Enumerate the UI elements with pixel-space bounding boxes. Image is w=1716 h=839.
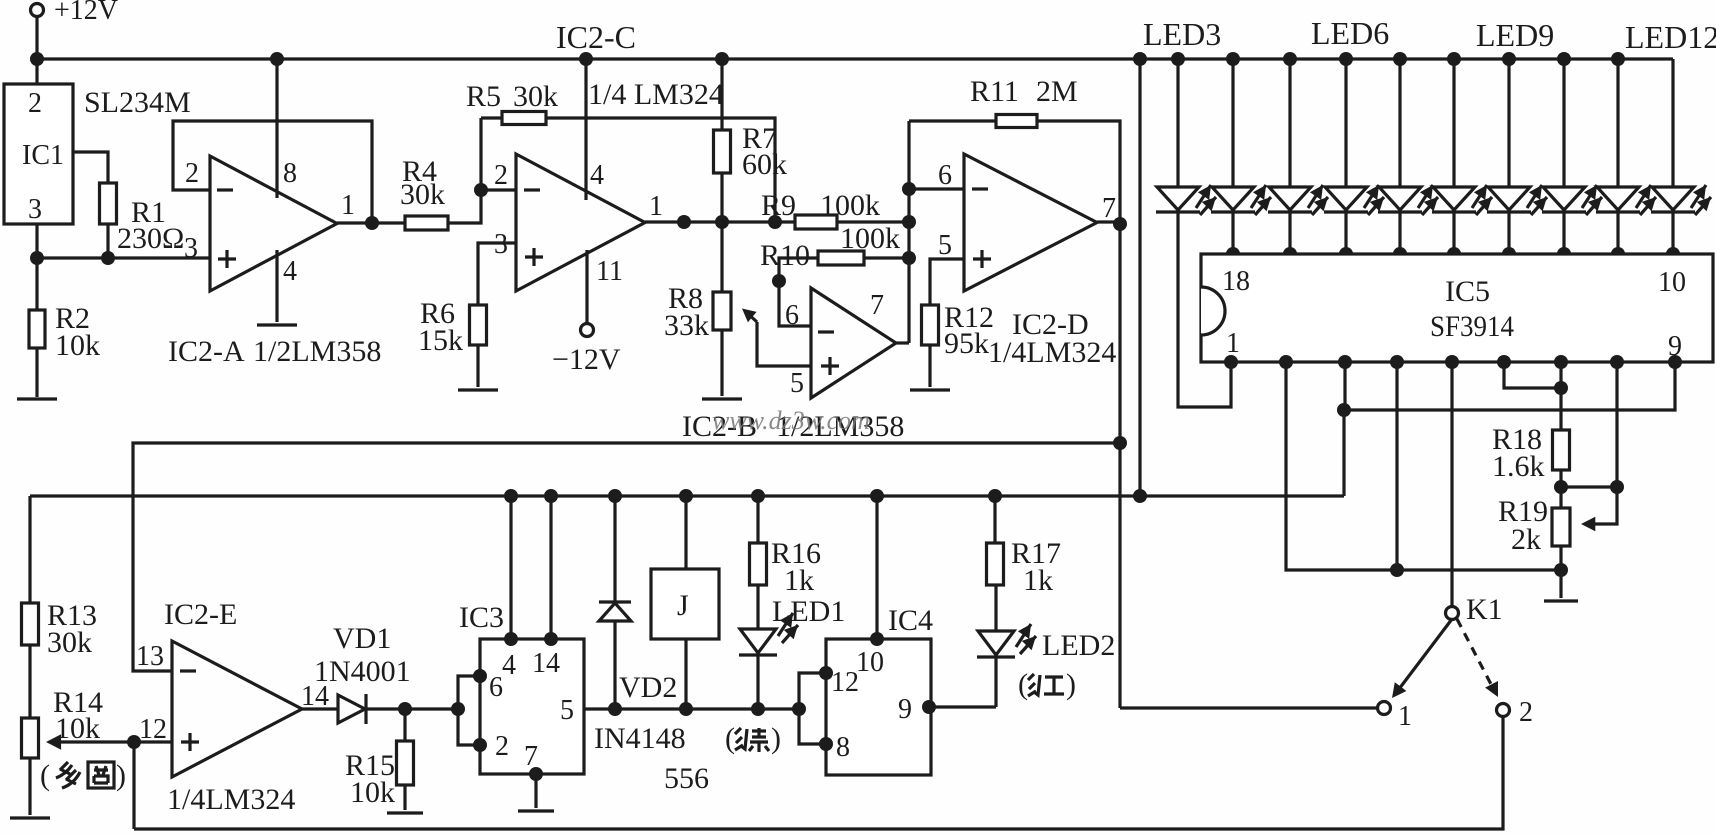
IC IC4 — [826, 604, 933, 775]
svg-text:30k: 30k — [513, 80, 558, 113]
wire R19 wiper arrow — [1581, 487, 1617, 531]
junction IC5 pin 3 — [1338, 355, 1352, 369]
svg-text:−12V: −12V — [552, 343, 621, 376]
label (multi-turn) — [40, 759, 126, 792]
op-amp IC2-A — [185, 156, 355, 291]
wire VD1 to R15 node — [366, 702, 458, 716]
terminal +12V — [31, 0, 119, 59]
junction IC5 pin 2 — [1279, 355, 1293, 369]
label LED3 — [1143, 16, 1221, 52]
resistor R10 — [760, 222, 900, 272]
diode VD1 1N4001 — [314, 622, 411, 724]
switch K1 terminal 2 — [1497, 697, 1534, 728]
resistor R13 — [22, 599, 98, 659]
op-amp IC2-E — [136, 641, 329, 777]
wire IC2-A pin8 from rail — [270, 52, 284, 198]
svg-text:IC2-E: IC2-E — [164, 598, 237, 631]
svg-text:30k: 30k — [47, 626, 92, 659]
watermark — [712, 406, 870, 435]
svg-text:R11: R11 — [970, 75, 1019, 108]
wire IC3 pin7 to ground — [529, 767, 543, 808]
svg-text:(: ( — [725, 722, 735, 755]
resistor R5 — [466, 80, 558, 125]
wire node line down to supply bus — [1342, 410, 1345, 496]
svg-text:556: 556 — [664, 762, 709, 795]
label IC2-C — [556, 19, 636, 55]
LED LED2 (red) — [977, 585, 1115, 662]
svg-text:1/4LM324: 1/4LM324 — [167, 783, 295, 816]
wire IC2-C pin11 — [585, 250, 588, 323]
wire IC5 pin5 down to switch K1 — [1450, 362, 1453, 607]
wire node to IC2-D inverting input — [909, 160, 964, 191]
junction IC5 pin 8 — [1610, 355, 1624, 369]
wire IC2-C pin4 from rail — [579, 52, 593, 200]
svg-text:5: 5 — [560, 695, 574, 726]
label IC2-A 1/2LM358 — [168, 335, 381, 368]
junction IC5 pin 6 — [1497, 355, 1511, 369]
wire IC2-E output to VD1 — [302, 707, 338, 710]
wire IC5 pin8 down to R19 wiper — [1615, 362, 1618, 487]
wire IC4 pin10 to supply bus — [870, 489, 884, 646]
wire R18 bottom node — [1554, 470, 1624, 508]
junction IC5 pin 9 — [1668, 355, 1682, 369]
wire IC2-B inverting input — [772, 258, 818, 326]
svg-text:10k: 10k — [350, 776, 395, 809]
svg-text:5: 5 — [790, 368, 804, 399]
svg-text:1k: 1k — [784, 564, 814, 597]
svg-text:1/2LM358: 1/2LM358 — [253, 335, 381, 368]
wire IC4 pin9 to LED2 — [922, 657, 996, 714]
svg-text:+12V: +12V — [54, 0, 118, 26]
LED bar diode D10 — [1651, 59, 1711, 261]
wire IC5 pin6 hook to R18 top — [1504, 362, 1568, 395]
label IC2-E — [164, 598, 237, 631]
wire IC5 pin3 down to node line — [1337, 362, 1351, 417]
wire IC2-D output down to switch — [1113, 224, 1127, 708]
wire IC2-D output — [1097, 217, 1127, 231]
ground below IC3 pin7 — [518, 809, 554, 812]
svg-text:2: 2 — [185, 158, 199, 189]
op-amp IC2-D — [938, 154, 1116, 291]
svg-text:2: 2 — [1519, 697, 1533, 728]
svg-text:13: 13 — [136, 641, 164, 672]
svg-text:VD1: VD1 — [333, 622, 391, 655]
potentiometer R8 — [664, 282, 731, 342]
relay J — [651, 489, 719, 716]
svg-text:www.dz3w.com: www.dz3w.com — [712, 406, 870, 435]
label (red) — [1018, 668, 1076, 701]
wire top rail down to supply bus — [1133, 52, 1147, 503]
label IC2-B 1/2LM358 — [682, 410, 904, 443]
svg-text:230Ω: 230Ω — [117, 222, 184, 255]
wire R2 to ground — [35, 348, 38, 397]
svg-text:14: 14 — [532, 648, 560, 679]
ground below R14 — [10, 816, 50, 819]
svg-text:LED6: LED6 — [1311, 15, 1389, 51]
wire IC5 pin9 to node line — [1344, 362, 1675, 410]
svg-text:60k: 60k — [742, 148, 787, 181]
wire R19 bottom to ground — [1554, 546, 1568, 598]
wire IC3 pin5 line — [584, 707, 799, 710]
label LED12 — [1625, 19, 1716, 55]
svg-text:IC5: IC5 — [1445, 275, 1490, 308]
wire IC1 pin2 to +12V rail — [35, 59, 38, 84]
svg-text:100k: 100k — [840, 222, 900, 255]
svg-text:IC1: IC1 — [22, 140, 64, 171]
resistor R9 — [761, 189, 880, 229]
wire R4 to IC2-C inverting input — [448, 118, 516, 223]
wire IC2-D noninverting input to R12 — [930, 259, 964, 305]
resistor R1 — [100, 183, 185, 255]
svg-text:SL234M: SL234M — [84, 86, 191, 119]
svg-text:10k: 10k — [55, 329, 100, 362]
svg-text:IC2-A: IC2-A — [168, 335, 245, 368]
wire R8 wiper to IC2-B noninverting input — [742, 309, 811, 367]
svg-text:95k: 95k — [944, 327, 989, 360]
wire pin12 node down to bottom line — [132, 742, 135, 829]
svg-text:2M: 2M — [1036, 75, 1078, 108]
label 1/4LM324 under IC2-E — [167, 783, 295, 816]
junction +12V rail at IC1 — [30, 52, 44, 66]
wire IC1 pin3 down to node — [35, 224, 38, 310]
svg-text:1: 1 — [341, 190, 355, 221]
svg-text:J: J — [677, 589, 689, 622]
wire R7 to R8 — [720, 173, 723, 292]
svg-text:3: 3 — [184, 233, 198, 264]
svg-text:12: 12 — [139, 714, 167, 745]
label (green) — [725, 722, 781, 755]
wire IC3 pin4 to supply bus — [504, 489, 518, 646]
wire R10 to node — [864, 251, 916, 265]
op-amp IC2-C — [494, 154, 663, 291]
svg-text:1N4001: 1N4001 — [314, 655, 411, 688]
svg-text:2: 2 — [28, 88, 42, 119]
svg-text:18: 18 — [1222, 266, 1250, 297]
wire R5 feedback to IC2-C output — [546, 118, 782, 229]
resistor R15 — [345, 709, 414, 809]
svg-text:4: 4 — [283, 256, 297, 287]
wire IC4 pins 12-8 bracket — [792, 666, 833, 751]
svg-text:LED3: LED3 — [1143, 16, 1221, 52]
LED bar diode D6 — [1432, 52, 1492, 261]
ground below R8 — [702, 397, 742, 400]
wire +12V top rail — [37, 57, 1673, 60]
wire R9 to node — [837, 215, 916, 229]
resistor R7 — [714, 122, 788, 181]
svg-text:7: 7 — [1102, 193, 1116, 224]
wire IC5 pin4 down to ground line — [1395, 362, 1398, 570]
wire R11 to IC2-D output — [1037, 121, 1120, 224]
LED bar diode D8 — [1542, 52, 1602, 261]
svg-text:1.6k: 1.6k — [1492, 450, 1545, 483]
resistor R16 — [750, 489, 822, 597]
wire R15 to ground — [403, 785, 406, 810]
wire R13 to R14 — [28, 645, 31, 718]
wire IC2-D output feedback line to IC2-E — [133, 443, 1120, 671]
wire rail to R7 — [715, 52, 729, 130]
svg-text:IC3: IC3 — [459, 601, 504, 634]
label LED6 — [1311, 15, 1389, 51]
svg-text:12: 12 — [831, 667, 859, 698]
svg-text:100k: 100k — [820, 189, 880, 222]
switch K1 terminal 1 — [1378, 701, 1413, 732]
svg-text:): ) — [116, 759, 126, 792]
wire IC3 pins 6-2 bracket — [451, 669, 487, 752]
svg-text:1: 1 — [649, 191, 663, 222]
potentiometer R14 (multi-turn) — [22, 686, 104, 758]
svg-text:7: 7 — [870, 290, 884, 321]
label IC2-D 1/4LM324 — [988, 308, 1116, 369]
diode VD2 IN4148 — [594, 489, 686, 755]
op-amp IC2-B — [785, 288, 896, 399]
IC IC3 556 — [459, 601, 584, 774]
switch K1 dashed arm to terminal 2 — [1457, 619, 1498, 697]
svg-text:4: 4 — [590, 160, 604, 191]
wire IC2-C output line — [645, 215, 795, 229]
svg-text:VD2: VD2 — [619, 671, 677, 704]
wire IC3 pin14 to supply bus — [544, 489, 558, 646]
svg-text:): ) — [1066, 668, 1076, 701]
svg-text:R5: R5 — [466, 80, 501, 113]
svg-text:5: 5 — [938, 230, 952, 261]
resistor R12 — [922, 301, 995, 360]
svg-text:6: 6 — [938, 160, 952, 191]
svg-text:1/4 LM324: 1/4 LM324 — [588, 78, 724, 111]
svg-text:4: 4 — [502, 650, 516, 681]
svg-text:9: 9 — [898, 694, 912, 725]
wire switch terminal 1 to IC2-D output line — [1120, 706, 1377, 709]
svg-text:2: 2 — [495, 731, 509, 762]
svg-text:): ) — [771, 722, 781, 755]
svg-text:10: 10 — [1658, 267, 1686, 298]
svg-text:10: 10 — [856, 647, 884, 678]
wire IC2-C pin3 to R6 — [478, 243, 516, 305]
junction IC5 pin 7 — [1554, 355, 1568, 369]
svg-text:IC2-C: IC2-C — [556, 19, 636, 55]
wire IC2-A feedback loop — [173, 121, 372, 223]
IC IC5 SF3914 — [1201, 254, 1713, 362]
wire IC2-A pin4 to ground — [275, 250, 278, 322]
junction IC5 pin 5 — [1445, 355, 1459, 369]
wire R14 wiper arrow to IC2-E noninverting input — [46, 734, 141, 749]
LED bar diode D3 — [1268, 52, 1328, 261]
svg-text:IC4: IC4 — [888, 604, 933, 637]
svg-text:2: 2 — [494, 160, 508, 191]
wire R1 bottom to node — [101, 224, 115, 265]
wire IC2-E noninverting input — [134, 740, 172, 743]
resistor R11 — [909, 75, 1078, 128]
wire IC5 pin7 to R18 — [1559, 362, 1562, 430]
LED LED1 (green) — [739, 585, 845, 716]
wire IC2-A output — [337, 216, 405, 230]
potentiometer R19 — [1498, 495, 1570, 556]
svg-text:10k: 10k — [55, 712, 100, 745]
svg-text:11: 11 — [596, 256, 623, 287]
junction IC5 pin 1 — [1224, 355, 1238, 369]
resistor R17 — [987, 489, 1062, 597]
svg-text:1: 1 — [1226, 328, 1240, 359]
wire supply bus — [30, 494, 1344, 497]
LED bar diode D4 — [1324, 52, 1384, 261]
svg-text:LED2: LED2 — [1042, 629, 1115, 662]
LED bar diode D2 — [1211, 52, 1271, 261]
IC IC1 SL234M — [4, 84, 73, 225]
wire IC5 pin2 down to R19 ground line — [1286, 362, 1561, 577]
wire IC1 to R1 — [73, 152, 108, 183]
terminal -12V — [552, 324, 621, 377]
svg-text:30k: 30k — [400, 178, 445, 211]
wire R8 to ground — [720, 330, 723, 396]
label SL234M — [84, 86, 191, 119]
svg-text:1/4LM324: 1/4LM324 — [988, 336, 1116, 369]
svg-text:3: 3 — [28, 194, 42, 225]
switch K1 common — [1446, 593, 1503, 626]
wire rail corner down to LED10 — [0, 0, 1, 1]
label 556 — [664, 762, 709, 795]
wire bottom line to switch terminal 2 — [134, 716, 1503, 829]
svg-text:(: ( — [1018, 668, 1028, 701]
svg-text:K1: K1 — [1466, 593, 1503, 626]
ground below IC2-A pin4 — [257, 323, 297, 326]
ground below R15 — [387, 811, 423, 814]
svg-text:6: 6 — [785, 300, 799, 331]
label 1/4 LM324 — [588, 78, 724, 111]
junction IC5 pin 4 — [1390, 355, 1404, 369]
svg-text:(: ( — [40, 759, 50, 792]
svg-text:15k: 15k — [418, 324, 463, 357]
resistor R4 — [400, 155, 448, 230]
svg-text:R9: R9 — [761, 189, 796, 222]
svg-text:LED1: LED1 — [772, 595, 845, 628]
svg-text:6: 6 — [489, 672, 503, 703]
LED bar diode D7 — [1487, 52, 1547, 261]
resistor R2 — [29, 302, 100, 362]
switch K1 arm to terminal 1 — [1392, 619, 1452, 698]
wire IC2-B output to IC2-D input node — [896, 121, 916, 343]
svg-text:2k: 2k — [1511, 523, 1541, 556]
resistor R18 — [1492, 423, 1570, 483]
junction IC1 pin3 node — [30, 251, 44, 265]
LED bar diode D5 — [1378, 52, 1438, 261]
svg-text:1: 1 — [1398, 701, 1412, 732]
ground below R19 — [1544, 599, 1578, 602]
svg-text:8: 8 — [283, 158, 297, 189]
wire node 3 to IC2-A noninverting input — [37, 233, 210, 264]
LED bar diode D1 — [1156, 52, 1231, 407]
resistor R6 — [418, 297, 487, 357]
svg-text:LED12: LED12 — [1625, 19, 1716, 55]
label LED9 — [1476, 17, 1554, 53]
ground below R2 — [17, 397, 57, 400]
svg-text:R10: R10 — [760, 239, 810, 272]
wire R6 to ground — [476, 345, 479, 387]
svg-text:8: 8 — [836, 732, 850, 763]
ground below R6 — [458, 388, 498, 391]
svg-text:IN4148: IN4148 — [594, 722, 686, 755]
LED bar diode D9 — [1596, 52, 1656, 261]
wire R14 to ground — [28, 758, 31, 815]
svg-text:33k: 33k — [664, 309, 709, 342]
ground below R12 — [910, 388, 950, 391]
svg-text:LED9: LED9 — [1476, 17, 1554, 53]
svg-text:SF3914: SF3914 — [1430, 310, 1514, 343]
svg-text:1k: 1k — [1023, 564, 1053, 597]
wire R12 to ground — [928, 345, 931, 387]
wire supply bus down to R13 — [28, 496, 31, 603]
